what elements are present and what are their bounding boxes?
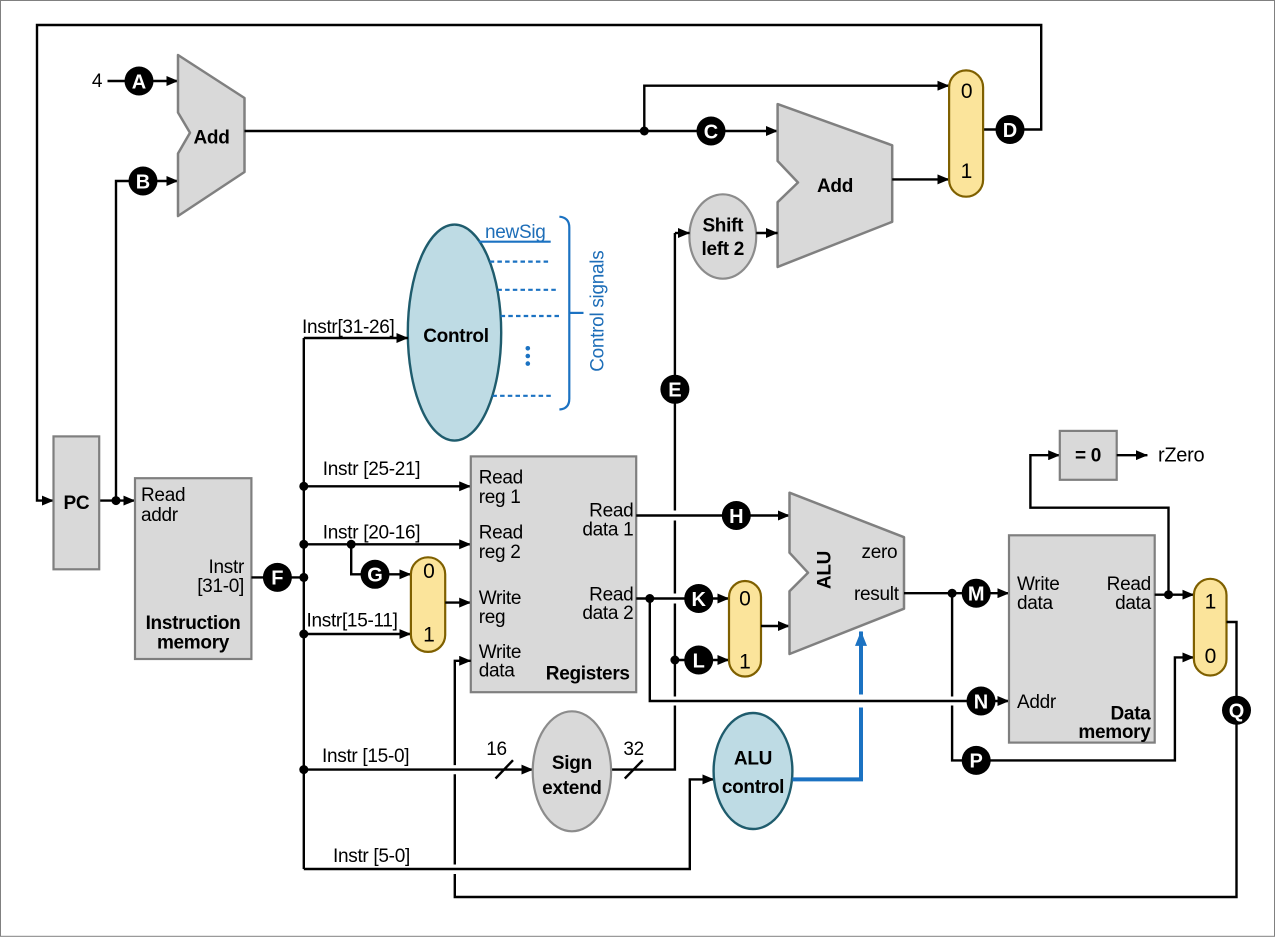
wire: writeback mux output down, along bottom, up into Registers Write data (through Q) — [455, 622, 1237, 897]
wire: shift left 2 to branch Add — [756, 232, 777, 234]
junction: bus Instr[15-0] — [299, 765, 308, 774]
svg-text:control: control — [722, 777, 784, 798]
wire: PC to instruction memory read addr — [99, 499, 135, 501]
svg-text:4: 4 — [92, 71, 103, 92]
registers file — [471, 456, 636, 692]
svg-text:P: P — [970, 751, 983, 773]
control signal dots — [526, 346, 531, 366]
svg-text:Write: Write — [1017, 574, 1059, 595]
ellipse: Shift left 2 — [689, 194, 756, 278]
svg-text:1: 1 — [961, 160, 972, 183]
adder Add (branch target) — [778, 104, 893, 267]
mux: branch select (0/1) — [949, 70, 983, 196]
svg-text:Instr[15-11]: Instr[15-11] — [307, 611, 398, 632]
svg-text:Read: Read — [1107, 574, 1151, 595]
svg-text:Q: Q — [1229, 701, 1245, 723]
node H — [722, 501, 751, 530]
junction: bus instr word — [299, 573, 308, 582]
svg-text:Instr [25-21]: Instr [25-21] — [323, 459, 420, 480]
bus width slash 32 — [625, 760, 643, 778]
brace: control signals — [559, 217, 569, 410]
wire: sign-extend output vertical up to shift left 2 (with crossing gaps) — [611, 233, 675, 770]
ellipse: Sign extend — [533, 711, 611, 831]
comparator =0 box — [1060, 431, 1117, 480]
svg-text:PC: PC — [64, 493, 90, 514]
svg-text:Add: Add — [817, 176, 853, 197]
svg-text:Instr [20-16]: Instr [20-16] — [323, 522, 420, 543]
svg-text:Instr [15-0]: Instr [15-0] — [322, 746, 409, 767]
wire: sign-extend branch into ALUsrc mux input 1 (through L) — [675, 659, 729, 661]
wire: PC output branch up into Add — [116, 181, 178, 501]
node K — [684, 584, 713, 613]
svg-text:data 1: data 1 — [582, 520, 633, 541]
wire: Instr[25-21] to Read reg 1 — [304, 485, 471, 487]
wire: Add output to branch Add (through C) — [245, 130, 778, 132]
wire: constant 4 into Add — [108, 80, 179, 82]
svg-text:K: K — [691, 589, 706, 611]
svg-text:N: N — [974, 691, 988, 713]
wire: Read data 2 down and right to Addr (through N) — [650, 599, 1009, 702]
node G — [361, 560, 390, 589]
svg-text:0: 0 — [1205, 645, 1216, 668]
wire: Instr[20-16] to Read reg 2 — [304, 543, 471, 545]
wire: Read data 2 to ALUsrc mux input 0 (through K) — [636, 597, 729, 599]
junction: Read data 2 branch — [645, 594, 654, 603]
bus width slash 16 — [496, 760, 514, 778]
node P — [962, 746, 991, 775]
wire: PC feedback loop (mux D output, up, across top, down into PC) — [37, 25, 1041, 501]
wire: ALU result to Data memory Write data (through M) — [904, 592, 1009, 594]
svg-text:left 2: left 2 — [702, 239, 745, 260]
wire: instruction memory output to bus — [251, 576, 303, 578]
svg-text:addr: addr — [141, 505, 179, 526]
control signal dashed line 3 — [501, 315, 560, 317]
svg-text:32: 32 — [623, 739, 644, 760]
adder Add (PC+4) — [178, 55, 245, 216]
svg-text:= 0: = 0 — [1075, 446, 1101, 467]
svg-text:[31-0]: [31-0] — [197, 576, 244, 597]
junction: read data branch to =0 — [1164, 590, 1173, 599]
svg-text:ALU: ALU — [734, 749, 772, 770]
wire: Instr[15-0] into sign extend — [304, 768, 533, 770]
svg-text:Sign: Sign — [552, 753, 592, 774]
svg-text:Control signals: Control signals — [588, 251, 609, 372]
wire: instruction bus vertical — [303, 338, 305, 869]
svg-text:16: 16 — [486, 739, 507, 760]
svg-text:data: data — [1115, 593, 1152, 614]
node D — [996, 115, 1025, 144]
svg-text:newSig: newSig — [485, 222, 546, 243]
wire: ALU control to ALU (blue, with crossing gap) — [792, 632, 861, 780]
svg-text:memory: memory — [157, 633, 230, 654]
svg-text:Shift: Shift — [702, 216, 744, 237]
ellipse: ALU control — [714, 713, 793, 829]
svg-text:Addr: Addr — [1017, 692, 1057, 713]
mux: write register select (0/1) — [411, 557, 445, 652]
svg-text:E: E — [668, 380, 681, 402]
svg-text:memory: memory — [1078, 722, 1151, 743]
wire: Instr[5-0] along bottom and up into ALU control — [304, 779, 714, 869]
wire: memory Read data to mem-mux input 1 — [1155, 594, 1194, 596]
junction: PC+4 branch — [640, 127, 649, 136]
svg-text:0: 0 — [739, 588, 750, 611]
svg-text:Instr[31-26]: Instr[31-26] — [302, 317, 395, 338]
svg-text:A: A — [132, 71, 146, 93]
svg-text:1: 1 — [739, 650, 750, 673]
wire: write-reg mux output to Write reg — [445, 601, 471, 603]
svg-text:0: 0 — [423, 560, 434, 583]
svg-text:reg: reg — [479, 607, 506, 628]
svg-text:result: result — [854, 584, 900, 605]
svg-text:reg 2: reg 2 — [479, 542, 521, 563]
svg-text:data 2: data 2 — [582, 603, 633, 624]
svg-text:B: B — [136, 171, 150, 193]
wire: Instr[15-11] into write-reg mux input 1 — [304, 633, 411, 635]
wire: branch Add output into mux input 1 — [892, 178, 949, 180]
node E — [660, 375, 689, 404]
svg-text:1: 1 — [423, 624, 434, 647]
svg-text:Control: Control — [423, 326, 488, 347]
node B — [129, 167, 158, 196]
junction: ALU result branch — [948, 589, 957, 598]
node F — [263, 563, 292, 592]
wire: Read data 1 to ALU (through H) — [636, 514, 789, 516]
control signal dashed line 1 — [490, 261, 550, 263]
node N — [967, 687, 996, 716]
svg-text:rZero: rZero — [1158, 445, 1204, 467]
svg-text:Instruction: Instruction — [146, 613, 241, 634]
svg-text:Read: Read — [479, 523, 523, 544]
svg-text:Write: Write — [479, 588, 521, 609]
junction: bus Instr[15-11] — [299, 630, 308, 639]
data memory — [1009, 535, 1155, 742]
junction: bus Instr[25-21] — [299, 482, 308, 491]
junction: sign-extend line to mux input 1 — [670, 656, 679, 665]
svg-text:Read: Read — [479, 468, 523, 489]
svg-text:D: D — [1003, 120, 1017, 142]
wire: PC+4 up into branch mux input 0 — [644, 86, 949, 131]
node A — [125, 67, 154, 96]
register PC — [54, 436, 100, 569]
junction: PC output — [112, 496, 121, 505]
svg-text:extend: extend — [542, 778, 601, 799]
svg-text:Read: Read — [141, 485, 185, 506]
svg-text:data: data — [479, 660, 516, 681]
svg-text:reg 1: reg 1 — [479, 487, 521, 508]
node Q — [1222, 696, 1251, 725]
svg-text:F: F — [271, 568, 283, 590]
svg-text:G: G — [367, 565, 383, 587]
svg-text:zero: zero — [862, 542, 898, 563]
ellipse: Control — [408, 225, 501, 441]
svg-text:H: H — [729, 506, 743, 528]
svg-text:data: data — [1017, 593, 1054, 614]
svg-text:Registers: Registers — [546, 663, 630, 684]
svg-text:Read: Read — [589, 501, 633, 522]
node C — [697, 117, 726, 146]
svg-text:Instr: Instr — [209, 557, 245, 578]
junction: bus Instr[20-16] — [299, 540, 308, 549]
control signal dashed line 2 — [497, 289, 556, 291]
ALU — [790, 493, 905, 654]
svg-text:ALU: ALU — [815, 551, 836, 589]
wire: ALU result branch down and right, up into memory mux input 0 (through P) — [952, 593, 1194, 760]
wire: read data up and into =0 comparator — [1030, 455, 1168, 595]
junction: Instr[20-16] branch to mux — [347, 540, 356, 549]
wire: Instr[20-16] branch into write-reg mux input 0 — [351, 544, 411, 574]
svg-text:1: 1 — [1205, 591, 1216, 614]
wire: ALUsrc mux output into ALU — [761, 625, 790, 627]
wire: =0 output to rZero — [1117, 454, 1148, 456]
svg-text:Instr [5-0]: Instr [5-0] — [333, 846, 410, 867]
mux: ALU source select (0/1) — [729, 581, 761, 677]
svg-text:C: C — [704, 121, 718, 143]
instruction memory — [135, 478, 251, 659]
wire: Instr[31-26] into Control — [304, 337, 408, 339]
svg-text:0: 0 — [961, 80, 972, 103]
node M — [962, 579, 991, 608]
mux: memory-to-register select (1/0) — [1194, 579, 1227, 676]
svg-text:Add: Add — [193, 128, 229, 149]
node L — [684, 646, 713, 675]
wire: into shift left 2 — [675, 232, 690, 234]
svg-text:L: L — [693, 650, 705, 672]
svg-text:M: M — [968, 584, 985, 606]
control signal dashed line 4 — [492, 395, 551, 397]
